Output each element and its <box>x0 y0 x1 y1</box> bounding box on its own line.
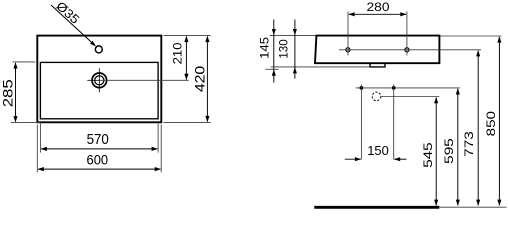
dimension line 130 <box>293 20 297 79</box>
top edge extension line to 145/130 dimensions (left) <box>270 35 316 37</box>
dimension line 285 <box>13 62 17 122</box>
fixing hole left (side view) <box>346 48 350 52</box>
floor line extension (thin) <box>439 206 506 208</box>
dimension line 570 <box>41 147 158 151</box>
svg-text:595: 595 <box>442 138 456 164</box>
dimension text 285 <box>0 79 15 107</box>
svg-text:150: 150 <box>367 143 389 158</box>
tap hole leader line with arrow <box>51 5 96 47</box>
extension line through right fixing hole <box>406 12 408 56</box>
svg-text:545: 545 <box>421 142 435 168</box>
dimension text 595 <box>442 138 456 164</box>
drain centerline extension to 210 dimension <box>99 79 189 81</box>
dimension line 280 <box>348 12 406 16</box>
dimension line 850 <box>497 36 501 206</box>
top edge extension line to 850 dimension <box>440 35 501 37</box>
dimension line 545 <box>434 97 438 206</box>
extension stub for 145 (bottom) <box>266 68 279 70</box>
dimension line 210 <box>184 36 188 80</box>
extension line through left fixing hole <box>347 12 349 56</box>
dimension text 210 <box>170 42 184 64</box>
template right vertical line <box>393 84 395 159</box>
svg-text:Ø35: Ø35 <box>53 0 82 27</box>
floor line (thick) <box>314 206 439 209</box>
svg-text:130: 130 <box>277 39 291 59</box>
trap bottom extension line to 130 dimension <box>271 66 370 68</box>
svg-text:210: 210 <box>170 42 184 64</box>
dimension text 850 <box>484 111 498 137</box>
dimension text 150 <box>367 143 389 158</box>
washbasin outer rim (plan view 600x420) <box>37 36 161 123</box>
svg-text:280: 280 <box>367 0 390 14</box>
drain cross horizontal centerline <box>87 79 99 81</box>
extension line at outer bottom edge (right) <box>164 121 211 123</box>
dimension text 145 <box>257 37 271 59</box>
dimension text 545 <box>421 142 435 168</box>
dimension line 773 <box>476 50 480 206</box>
label Ø35 <box>53 0 82 27</box>
washbasin inner basin rim (plan view 570x285) <box>40 62 158 118</box>
trap outlet dashed circle <box>372 92 381 101</box>
dimension line 150 left tail with arrow <box>345 157 361 161</box>
extension line at basin inner top edge (left) <box>13 61 36 63</box>
svg-text:145: 145 <box>257 37 271 59</box>
dimension line 595 <box>456 88 460 206</box>
dimension line 600 <box>38 167 162 171</box>
drain hole inner circle <box>95 76 104 85</box>
dimension text 130 <box>277 39 291 59</box>
trap outlet centerline to 545 dimension <box>381 96 439 98</box>
svg-text:773: 773 <box>462 131 476 157</box>
dimension line 420 <box>205 36 209 122</box>
dimension line 150 right tail with arrow <box>394 157 407 161</box>
drain trap sleeve under basin <box>370 63 385 67</box>
svg-text:420: 420 <box>192 66 207 92</box>
template left vertical line <box>360 84 362 159</box>
extension line inner bottom-right corner <box>157 121 159 153</box>
basin side profile outline <box>315 36 439 64</box>
extension line outer bottom-right corner <box>160 125 162 173</box>
dimension text 773 <box>462 131 476 157</box>
drain cross vertical centerline <box>98 68 100 92</box>
dimension text 570 <box>87 131 109 148</box>
dimension text 280 <box>367 0 390 14</box>
extension line outer bottom-left corner <box>36 125 38 173</box>
extension line at outer top edge (right) <box>164 35 211 37</box>
fixing holes centerline extended to 773 dimension <box>339 49 481 51</box>
template top line with junction dots <box>356 86 460 90</box>
svg-text:570: 570 <box>87 131 109 148</box>
extension line at outer bottom edge (left) <box>11 122 40 124</box>
dimension text 420 <box>192 66 207 92</box>
svg-text:600: 600 <box>87 153 109 168</box>
fixing hole right (side view) <box>405 48 409 52</box>
extension line inner bottom-left corner <box>39 121 41 153</box>
dimension line 145 <box>272 20 276 83</box>
svg-text:850: 850 <box>484 111 498 137</box>
tap hole Ø35 <box>95 46 102 53</box>
dimension text 600 <box>87 153 109 168</box>
drain hole outer circle <box>92 73 107 88</box>
svg-text:285: 285 <box>0 79 15 107</box>
